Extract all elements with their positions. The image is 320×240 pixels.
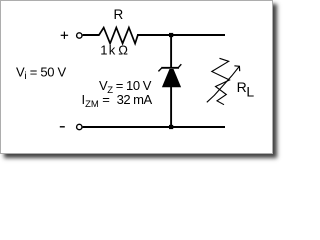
wire: [83, 34, 100, 36]
svg-text:R: R: [237, 79, 247, 95]
load resistor RL arrow shaft: [207, 67, 239, 103]
resistor R1 zigzag: [99, 28, 138, 44]
wire zener anode: [170, 87, 172, 127]
node junction top: [169, 33, 173, 37]
wire top rail: [137, 34, 225, 36]
wire bottom rail: [83, 126, 225, 128]
minus terminal sign: [60, 126, 65, 128]
svg-text:R: R: [114, 7, 124, 22]
wire zener cathode: [170, 35, 172, 68]
svg-text:1kΩ: 1kΩ: [100, 43, 128, 58]
zener diode D1 cathode bar: [161, 67, 179, 69]
load resistor RL arrowhead: [234, 66, 239, 71]
zener bar right bend: [179, 64, 182, 67]
zener bar left bend: [158, 68, 161, 71]
svg-text:IZM=32 mA: IZM=32 mA: [82, 92, 153, 110]
plus terminal sign: [61, 32, 68, 39]
input terminal top: [77, 33, 82, 38]
svg-text:Vi = 50 V: Vi = 50 V: [16, 65, 67, 83]
svg-text:L: L: [246, 83, 254, 99]
input terminal bottom: [77, 124, 82, 129]
node junction bottom: [169, 125, 173, 129]
zener diode D1 triangle: [162, 69, 181, 87]
load resistor RL sketch zigzag: [212, 58, 230, 104]
